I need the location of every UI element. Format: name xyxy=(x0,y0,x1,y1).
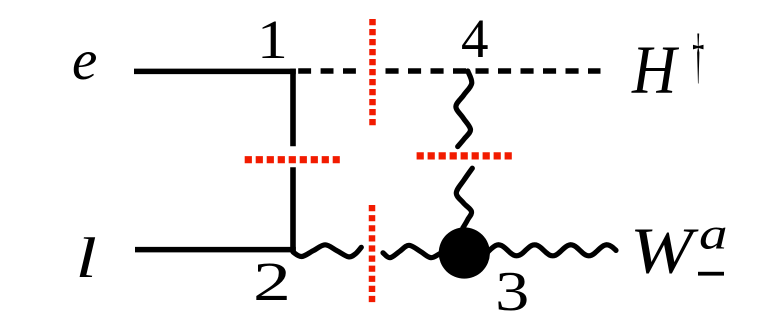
svg-text:a: a xyxy=(699,210,728,258)
red dotted cut line, horizontal right xyxy=(417,152,516,159)
wavy W line: vertex 3 to right end xyxy=(464,245,616,256)
svg-text:†: † xyxy=(692,23,704,92)
red dotted cut line, horizontal left xyxy=(245,156,340,163)
wavy W propagator: lower cut to vertex 3 xyxy=(383,245,448,257)
red dotted cut line, vertical bottom xyxy=(369,205,376,303)
svg-text:W: W xyxy=(630,215,699,287)
red dotted cut line, vertical top xyxy=(369,19,376,126)
svg-text:l: l xyxy=(75,226,96,289)
wavy W propagator: vertex 2 to lower cut xyxy=(293,245,361,257)
svg-text:3: 3 xyxy=(495,260,529,323)
svg-text:1: 1 xyxy=(257,9,288,70)
internal fermion propagator 1-2, segment below cut xyxy=(290,167,296,252)
svg-text:2: 2 xyxy=(253,252,291,313)
svg-text:4: 4 xyxy=(461,8,489,69)
external lepton line l (solid fermion line) xyxy=(135,247,296,253)
svg-text:e: e xyxy=(72,29,97,92)
external electron line e (solid fermion line) xyxy=(134,69,296,75)
vertical wavy W propagator: cut down to vertex 3 xyxy=(456,168,472,228)
dashed Higgs line, left of vertical cut xyxy=(298,68,356,73)
label minus subscript xyxy=(698,272,724,276)
vertical wavy W propagator: vertex 4 down to cut xyxy=(456,71,472,147)
svg-text:H: H xyxy=(631,32,680,108)
internal fermion propagator 1-2, segment above cut xyxy=(290,69,296,147)
dashed Higgs line, right of vertical cut xyxy=(386,68,601,73)
vertex 3 effective-vertex blob xyxy=(439,227,490,278)
